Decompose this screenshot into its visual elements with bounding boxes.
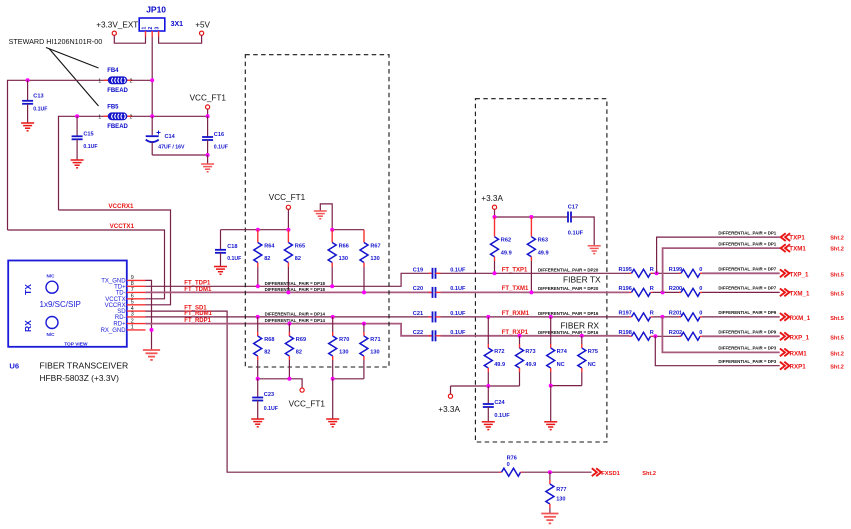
pin stub JP10-2 (151, 31, 153, 37)
pin 8 TD+ of U6 (127, 285, 146, 287)
junction bottom rail (206, 153, 210, 157)
svg-text:FIBER RX: FIBER RX (560, 320, 599, 330)
svg-text:+5V: +5V (195, 21, 210, 30)
svg-text:U6: U6 (9, 362, 19, 371)
svg-text:DIFFERENTIAL_PAIR = DP7: DIFFERENTIAL_PAIR = DP7 (718, 286, 776, 291)
pin 1 RX_GND of U6 (127, 329, 146, 331)
circle RX port (46, 317, 58, 329)
wire gnd rail box1 top (332, 229, 364, 231)
wire VCC_FT1 stem (207, 109, 209, 116)
net FT_TXM1 wire (441, 291, 630, 293)
wire FB5 row right (128, 115, 208, 117)
svg-text:2: 2 (130, 114, 133, 120)
svg-text:DIFFERENTIAL_PAIR = DP18: DIFFERENTIAL_PAIR = DP18 (265, 281, 326, 286)
junction FB4 right rail (150, 78, 154, 82)
node between R195 and R199 (655, 271, 659, 275)
pin stub JP10-1 (145, 31, 147, 37)
svg-text:2: 2 (148, 27, 154, 30)
wire FB4 row left (8, 80, 108, 230)
svg-text:FT_TDP1: FT_TDP1 (184, 280, 211, 286)
capacitor C24 (487, 386, 489, 404)
wire +3.3A rail box2 bottom (451, 385, 520, 387)
net FT_RXM1 wire (441, 316, 630, 318)
offpage connector TXP_1 (780, 269, 789, 277)
svg-text:N/C: N/C (47, 332, 56, 337)
wire R195 to R199 (653, 272, 682, 274)
pin 2 RD+ of U6 (127, 323, 146, 325)
wire gnd rail box2 bottom (551, 385, 582, 387)
svg-text:FB5: FB5 (107, 104, 119, 110)
svg-text:R198: R198 (619, 330, 632, 336)
svg-text:2: 2 (131, 318, 134, 324)
pointer line to FB4 (46, 48, 99, 69)
wire +5V to JP10 pin3 (159, 35, 202, 43)
junction VCC_FT1 rail (206, 114, 210, 118)
svg-text:130: 130 (370, 256, 379, 262)
svg-text:DIFFERENTIAL_PAIR = DP1: DIFFERENTIAL_PAIR = DP1 (718, 230, 776, 235)
ground C23 (251, 419, 264, 427)
wire R200 to TXM_1 (702, 291, 780, 293)
ground box1 bottom (326, 419, 339, 427)
junction R62 bottom on FT_TXP1 (493, 271, 497, 275)
svg-text:8: 8 (131, 281, 134, 287)
resistor R63 (530, 217, 532, 237)
capacitor C15 (76, 116, 78, 136)
resistor R69 (287, 322, 291, 326)
svg-text:DIFFERENTIAL_PAIR = DP14: DIFFERENTIAL_PAIR = DP14 (265, 318, 326, 323)
svg-text:VCCRX1: VCCRX1 (108, 203, 134, 210)
svg-text:RXM1: RXM1 (790, 350, 808, 357)
svg-text:R68: R68 (264, 337, 274, 343)
svg-text:DIFFERENTIAL_PAIR = DP3: DIFFERENTIAL_PAIR = DP3 (718, 359, 776, 364)
svg-text:Sht.2: Sht.2 (642, 471, 656, 477)
svg-text:R: R (650, 311, 654, 317)
IC U6 fiber transceiver box (8, 261, 127, 347)
svg-text:JP10: JP10 (146, 5, 166, 15)
svg-text:FT_TXM1: FT_TXM1 (502, 286, 529, 292)
svg-text:49.9: 49.9 (494, 362, 505, 368)
terminal +3.3A top (492, 205, 496, 209)
terminal +5V (200, 31, 204, 35)
svg-text:R70: R70 (339, 337, 349, 343)
resistor R73 (518, 334, 522, 338)
svg-text:NC: NC (557, 362, 565, 368)
svg-text:C24: C24 (494, 400, 505, 406)
svg-text:RXM_1: RXM_1 (790, 315, 811, 322)
svg-text:R195: R195 (619, 267, 632, 273)
wire gnd stem box2 bottom (550, 386, 552, 422)
svg-text:R199: R199 (669, 267, 682, 273)
svg-text:3: 3 (131, 312, 134, 318)
capacitor C18 (220, 230, 222, 250)
net VCCTX1 wire (8, 230, 165, 299)
svg-text:R73: R73 (525, 349, 535, 355)
resistor R198 (630, 335, 632, 337)
svg-text:82: 82 (295, 256, 301, 262)
resistor R200 (679, 291, 681, 293)
circle TX port (46, 281, 58, 293)
net FT_SD1 wire (146, 311, 500, 472)
junction R70 bottom (331, 377, 335, 381)
net FT_RDP1 wire (146, 324, 432, 336)
wire TX_GND pin9 to ground (146, 280, 152, 349)
svg-text:47UF / 16V: 47UF / 16V (158, 145, 185, 151)
dashed box termination network 1 (245, 55, 389, 367)
svg-text:R74: R74 (557, 349, 568, 355)
svg-text:RX_GND: RX_GND (101, 328, 127, 334)
svg-text:C14: C14 (165, 134, 176, 140)
svg-text:R65: R65 (295, 243, 305, 249)
svg-text:130: 130 (370, 350, 379, 356)
svg-text:TX: TX (23, 284, 33, 295)
resistor R65 (287, 230, 289, 243)
svg-text:DIFFERENTIAL_PAIR = DP20: DIFFERENTIAL_PAIR = DP20 (538, 267, 599, 272)
svg-text:STEWARD HI1206N101R-00: STEWARD HI1206N101R-00 (9, 37, 103, 46)
svg-text:FXSD1: FXSD1 (601, 471, 620, 477)
wire gnd stem box1 bottom (332, 379, 334, 419)
svg-text:DIFFERENTIAL_PAIR = DP20: DIFFERENTIAL_PAIR = DP20 (538, 286, 599, 291)
svg-text:3: 3 (155, 27, 161, 30)
wire JP10 pin2 down to VCC rail (151, 37, 153, 116)
wire R201 to RXM_1 (702, 316, 780, 318)
junction R66 top (330, 228, 334, 232)
junction +3.3A rail R63 (529, 215, 533, 219)
svg-text:R: R (650, 330, 654, 336)
net FT_RXP1 wire (441, 335, 630, 337)
svg-text:0.1UF: 0.1UF (568, 231, 584, 237)
svg-text:0: 0 (699, 330, 702, 336)
svg-text:DIFFERENTIAL_PAIR = DP7: DIFFERENTIAL_PAIR = DP7 (718, 267, 776, 272)
ground R77 (541, 514, 558, 524)
svg-text:Sht.2: Sht.2 (830, 351, 844, 357)
ground C14/C16 (201, 164, 214, 172)
svg-text:FB4: FB4 (107, 68, 119, 74)
svg-text:N/C: N/C (47, 274, 56, 279)
svg-text:R196: R196 (619, 286, 632, 292)
svg-text:FT_RXM1: FT_RXM1 (502, 311, 530, 317)
svg-text:+3.3V_EXT: +3.3V_EXT (96, 21, 138, 30)
ground box2 bottom (544, 422, 557, 430)
svg-text:DIFFERENTIAL_PAIR = DP16: DIFFERENTIAL_PAIR = DP16 (538, 330, 599, 335)
terminal VCC_FT1 box1 bottom (300, 388, 304, 392)
offpage connector TXM1 (781, 244, 790, 252)
svg-text:+3.3A: +3.3A (438, 405, 460, 414)
svg-text:Sht.2: Sht.2 (830, 236, 844, 242)
junction R63 bottom on FT_TXM1 (529, 290, 533, 294)
junction R68 bottom (256, 377, 260, 381)
svg-text:R202: R202 (669, 330, 682, 336)
wire R202 to RXP_1 (702, 335, 780, 337)
svg-text:FBEAD: FBEAD (107, 124, 128, 130)
svg-text:R77: R77 (556, 487, 566, 493)
node between R197 and R201 (660, 315, 664, 319)
svg-text:82: 82 (264, 256, 270, 262)
node between R196 and R200 (661, 290, 665, 294)
svg-text:49.9: 49.9 (525, 362, 536, 368)
pointer line to FB5 (49, 49, 99, 107)
svg-text:R200: R200 (669, 286, 682, 292)
wire R197 to R201 (653, 316, 682, 318)
svg-text:VCC_FT1: VCC_FT1 (269, 193, 306, 202)
pin 7 TD- of U6 (127, 291, 146, 293)
resistor R62 (494, 217, 496, 237)
wire FB4 row right (128, 79, 153, 81)
junction R65/VCC top (286, 228, 290, 232)
node between R198 and R202 (653, 334, 657, 338)
wire ground stem C16 (207, 155, 209, 164)
junction R72 bottom / C24 (486, 384, 490, 388)
pin 5 VCCRX of U6 (127, 304, 146, 306)
svg-text:VCCRX: VCCRX (105, 303, 126, 309)
wire node to RXP1 row (655, 336, 779, 365)
wire VCC rail box1 bottom (258, 379, 302, 388)
svg-text:C17: C17 (568, 204, 578, 210)
pin 6 VCCTX of U6 (127, 298, 146, 300)
wire VCC_FT1 stem box1 (287, 209, 289, 229)
svg-text:0: 0 (699, 311, 702, 317)
terminal VCC_FT1 top (206, 105, 210, 109)
svg-text:R71: R71 (370, 337, 380, 343)
svg-text:0.1UF: 0.1UF (494, 413, 510, 419)
svg-text:TXP1: TXP1 (789, 235, 805, 242)
resistor R76 (500, 471, 502, 473)
svg-text:1: 1 (131, 325, 134, 331)
svg-text:130: 130 (339, 350, 348, 356)
svg-text:Sht.5: Sht.5 (830, 291, 844, 297)
svg-text:2: 2 (130, 78, 133, 84)
junction R64 bottom on FT_TDP1 (256, 284, 260, 288)
junction RX_GND pin1 (150, 328, 154, 332)
svg-text:TXM1: TXM1 (789, 246, 806, 253)
dashed box termination network 2 (475, 99, 607, 442)
resistor R197 (630, 316, 632, 318)
svg-text:NC: NC (588, 362, 596, 368)
svg-text:FT_TXP1: FT_TXP1 (502, 267, 528, 273)
svg-text:Sht.5: Sht.5 (830, 272, 844, 278)
svg-text:0.1UF: 0.1UF (214, 145, 228, 151)
svg-text:R62: R62 (501, 238, 511, 244)
svg-text:C20: C20 (413, 286, 423, 292)
svg-text:R76: R76 (507, 455, 517, 461)
svg-text:HFBR-5803Z (+3.3V): HFBR-5803Z (+3.3V) (40, 373, 120, 383)
ground symbol box1 top (320, 204, 332, 230)
svg-text:R69: R69 (296, 337, 306, 343)
wire +3.3A rail box2 (495, 216, 569, 218)
offpage connector RXM_1 (780, 313, 789, 321)
offpage connector RXM1 (780, 349, 789, 357)
svg-text:RX: RX (23, 320, 33, 332)
svg-text:DIFFERENTIAL_PAIR = DP1: DIFFERENTIAL_PAIR = DP1 (718, 241, 776, 246)
ferrite bead FB5 (104, 115, 109, 117)
svg-text:1: 1 (141, 27, 147, 30)
svg-text:TOP VIEW: TOP VIEW (64, 341, 88, 347)
svg-text:FIBER TRANSCEIVER: FIBER TRANSCEIVER (40, 361, 129, 371)
svg-text:C19: C19 (413, 267, 423, 273)
svg-text:1: 1 (98, 78, 101, 84)
capacitor C21 (429, 316, 433, 318)
resistor R195 (630, 272, 632, 274)
svg-text:DIFFERENTIAL_PAIR = DP9: DIFFERENTIAL_PAIR = DP9 (718, 330, 776, 335)
junction R66 bottom on FT_TDP1 (330, 284, 334, 288)
svg-text:VCCTX1: VCCTX1 (110, 223, 135, 230)
junction R74 bottom (549, 384, 553, 388)
capacitor C14 electrolytic (151, 116, 153, 135)
junction +3.3A rail R62 (493, 215, 497, 219)
resistor R66 (331, 230, 333, 243)
svg-text:0.1UF: 0.1UF (450, 286, 466, 292)
svg-text:0.1UF: 0.1UF (83, 144, 97, 150)
resistor R201 (679, 316, 681, 318)
svg-text:0.1UF: 0.1UF (33, 107, 47, 113)
svg-text:DIFFERENTIAL_PAIR = DP16: DIFFERENTIAL_PAIR = DP16 (538, 311, 599, 316)
svg-text:C21: C21 (413, 311, 423, 317)
net FT_TXP1 wire (441, 272, 630, 274)
capacitor C19 (429, 272, 433, 274)
svg-text:DIFFERENTIAL_PAIR = DP18: DIFFERENTIAL_PAIR = DP18 (265, 287, 326, 292)
svg-text:Sht.2: Sht.2 (830, 247, 844, 253)
svg-text:0.1UF: 0.1UF (227, 256, 241, 262)
svg-text:49.9: 49.9 (538, 250, 549, 256)
svg-text:1: 1 (98, 114, 101, 120)
svg-text:0.1UF: 0.1UF (450, 267, 466, 273)
pin 3 RD- of U6 (127, 316, 146, 318)
resistor R202 (679, 335, 681, 337)
capacitor C23 (257, 379, 259, 398)
resistor R64 (257, 230, 259, 243)
wire R199 to TXP_1 (702, 272, 780, 274)
connector JP10 (139, 18, 165, 31)
svg-text:R: R (650, 286, 654, 292)
junction R69 bottom (287, 377, 291, 381)
svg-text:0.1UF: 0.1UF (264, 406, 278, 412)
svg-text:82: 82 (296, 350, 302, 356)
svg-text:7: 7 (131, 287, 134, 293)
svg-text:0: 0 (699, 286, 702, 292)
svg-text:130: 130 (556, 496, 565, 502)
pin stub JP10-3 (158, 31, 160, 37)
offpage connector RXP_1 (780, 332, 789, 340)
svg-text:R197: R197 (619, 311, 632, 317)
wire +3.3A stem (494, 209, 496, 217)
net FT_TDM1 wire (146, 291, 432, 293)
ground C13 (21, 123, 34, 131)
junction FB5 left / C15 (75, 114, 79, 118)
svg-text:TXP_1: TXP_1 (790, 271, 809, 278)
svg-text:Sht.5: Sht.5 (830, 316, 844, 322)
wire node to TXP1 row (657, 237, 781, 273)
resistor R68 (256, 315, 260, 319)
svg-text:FIBER TX: FIBER TX (563, 274, 601, 284)
junction R64 top (256, 228, 260, 232)
svg-text:49.9: 49.9 (501, 250, 512, 256)
pin 9 TX_GND of U6 (127, 279, 146, 281)
svg-text:Sht.5: Sht.5 (830, 335, 844, 341)
svg-text:R64: R64 (264, 243, 275, 249)
svg-text:TD+: TD+ (114, 284, 126, 290)
svg-text:1x9/SC/SIP: 1x9/SC/SIP (40, 300, 81, 309)
svg-text:C23: C23 (264, 392, 274, 398)
resistor R72 (486, 315, 490, 319)
resistor R67 (363, 230, 365, 243)
junction R77 top (548, 470, 552, 474)
wire node to RXM1 row (662, 317, 779, 353)
wire R76 to FXSD1 (523, 471, 592, 473)
svg-text:C18: C18 (227, 244, 237, 250)
wire VCC rail box1 top (221, 229, 289, 231)
net VCCRX1 wire (59, 210, 171, 305)
svg-text:0: 0 (507, 462, 510, 468)
svg-text:Sht.2: Sht.2 (830, 365, 844, 371)
resistor R75 (580, 334, 584, 338)
junction R65 bottom on FT_TDM1 (286, 290, 290, 294)
svg-text:R75: R75 (588, 349, 598, 355)
terminal +3.3A bottom (448, 394, 452, 398)
ground C18 (214, 267, 227, 275)
offpage connector TXP1 (781, 233, 790, 241)
junction FB4 left / C13 (26, 78, 30, 82)
svg-text:R63: R63 (538, 238, 548, 244)
ground C15 (71, 160, 84, 168)
junction FB5 right rail (150, 114, 154, 118)
terminal VCC_FT1 box1 (286, 205, 290, 209)
svg-text:R201: R201 (669, 311, 682, 317)
wire R196 to R200 (653, 291, 682, 293)
svg-text:R66: R66 (339, 243, 349, 249)
svg-text:TD-: TD- (116, 290, 126, 296)
capacitor C20 (429, 291, 433, 293)
ground C24 (482, 422, 495, 430)
ferrite bead FB4 (104, 79, 109, 81)
svg-text:VCC_FT1: VCC_FT1 (190, 94, 227, 103)
svg-text:RD+: RD+ (113, 322, 126, 328)
svg-text:DIFFERENTIAL_PAIR = DP14: DIFFERENTIAL_PAIR = DP14 (265, 311, 326, 316)
svg-text:FT_RXP1: FT_RXP1 (502, 330, 529, 336)
svg-text:130: 130 (339, 256, 348, 262)
svg-text:DIFFERENTIAL_PAIR = DP9: DIFFERENTIAL_PAIR = DP9 (718, 310, 776, 315)
svg-text:FT_RDM1: FT_RDM1 (184, 311, 212, 317)
svg-text:DIFFERENTIAL_PAIR = DP3: DIFFERENTIAL_PAIR = DP3 (718, 346, 776, 351)
svg-text:C15: C15 (83, 132, 93, 138)
svg-text:5: 5 (131, 300, 134, 306)
net FT_RDM1 wire (146, 316, 432, 318)
wire +3.3V_EXT to JP10 pin1 (114, 35, 145, 43)
svg-text:RXP1: RXP1 (790, 364, 807, 371)
svg-text:R72: R72 (494, 349, 504, 355)
svg-text:FT_RDP1: FT_RDP1 (184, 318, 211, 324)
capacitor C22 (429, 335, 433, 337)
svg-text:+3.3A: +3.3A (481, 194, 503, 203)
svg-text:0: 0 (699, 267, 702, 273)
svg-text:VCC_FT1: VCC_FT1 (289, 400, 326, 409)
svg-text:TXM_1: TXM_1 (790, 290, 811, 297)
wire FB5 row left (59, 116, 108, 210)
svg-text:82: 82 (264, 350, 270, 356)
svg-text:FBEAD: FBEAD (107, 88, 128, 94)
svg-text:R: R (650, 267, 654, 273)
ground U6 (143, 350, 160, 360)
net FT_TDP1 wire (146, 273, 432, 286)
capacitor C16 (207, 116, 209, 137)
resistor R199 (679, 272, 681, 274)
svg-text:0.1UF: 0.1UF (450, 311, 466, 317)
svg-text:RXP_1: RXP_1 (790, 334, 810, 341)
offpage connector TXM_1 (780, 289, 789, 297)
offpage connector RXP1 (780, 362, 789, 370)
pin 4 SD of U6 (127, 310, 146, 312)
svg-text:R67: R67 (370, 243, 380, 249)
resistor R71 (362, 322, 366, 326)
junction R67 bottom on FT_TDM1 (362, 290, 366, 294)
